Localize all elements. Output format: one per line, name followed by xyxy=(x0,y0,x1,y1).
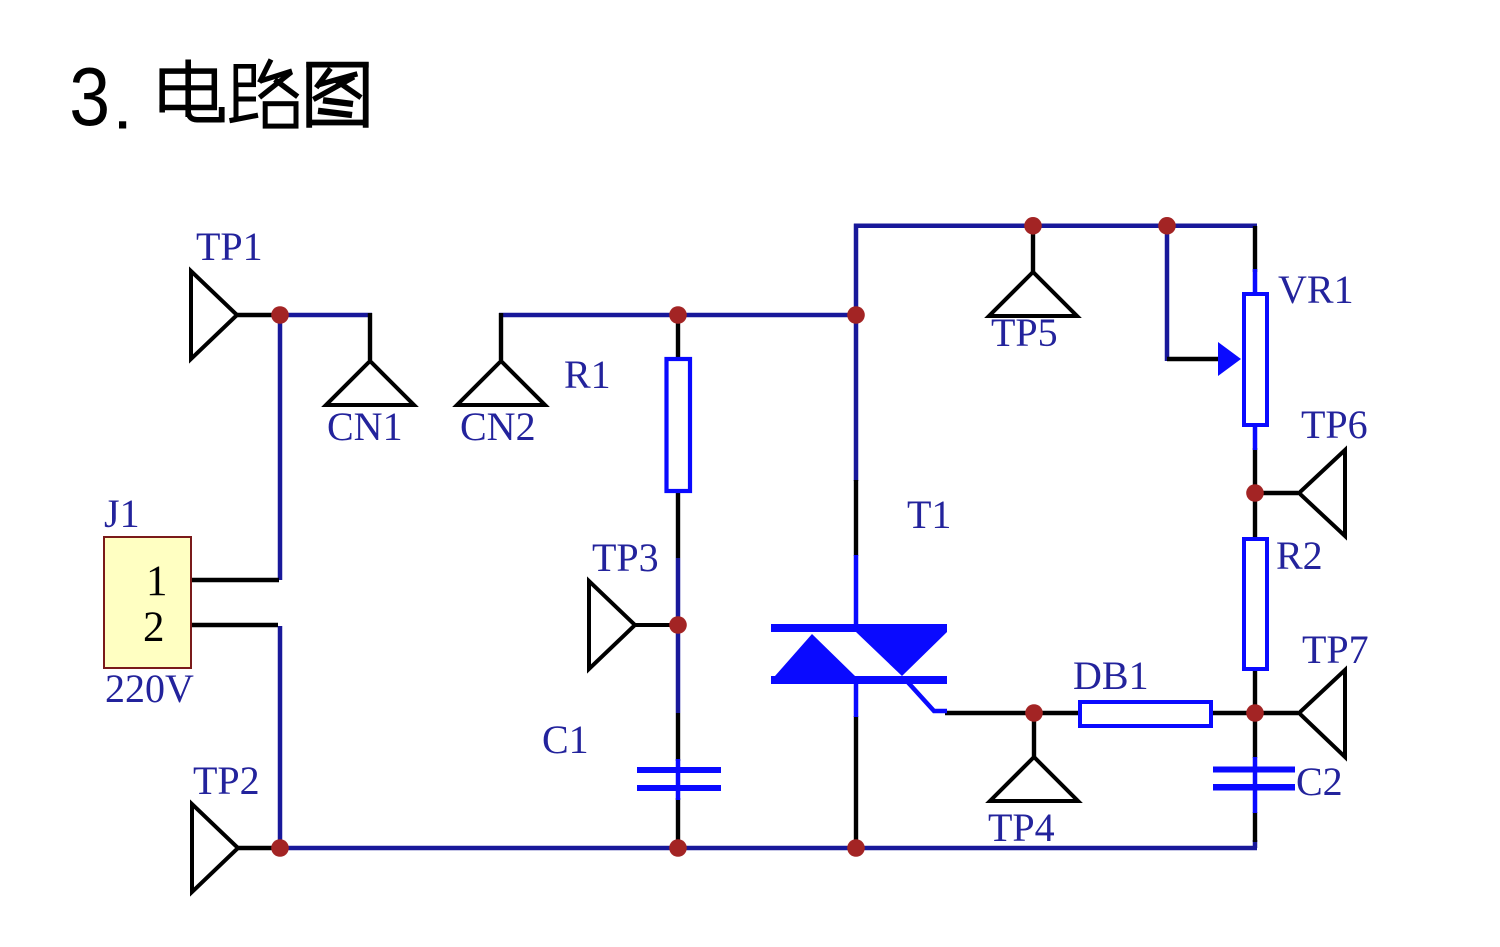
svg-text:VR1: VR1 xyxy=(1278,267,1354,312)
svg-text:T1: T1 xyxy=(907,492,951,537)
svg-text:C2: C2 xyxy=(1296,759,1343,804)
svg-text:2: 2 xyxy=(143,604,165,651)
svg-text:TP2: TP2 xyxy=(193,758,260,803)
svg-text:TP6: TP6 xyxy=(1301,402,1368,447)
svg-text:J1: J1 xyxy=(104,491,140,536)
svg-text:R2: R2 xyxy=(1276,533,1323,578)
svg-text:TP5: TP5 xyxy=(991,310,1058,355)
svg-text:TP7: TP7 xyxy=(1302,627,1369,672)
svg-text:C1: C1 xyxy=(542,717,589,762)
svg-text:220V: 220V xyxy=(105,666,194,711)
svg-text:DB1: DB1 xyxy=(1073,653,1149,698)
svg-text:TP4: TP4 xyxy=(988,805,1055,850)
svg-text:CN2: CN2 xyxy=(460,404,536,449)
svg-text:R1: R1 xyxy=(564,352,611,397)
svg-text:TP3: TP3 xyxy=(592,535,659,580)
svg-text:1: 1 xyxy=(146,558,168,605)
svg-text:CN1: CN1 xyxy=(327,404,403,449)
svg-text:3: 3 xyxy=(69,50,110,143)
svg-text:TP1: TP1 xyxy=(196,224,263,269)
